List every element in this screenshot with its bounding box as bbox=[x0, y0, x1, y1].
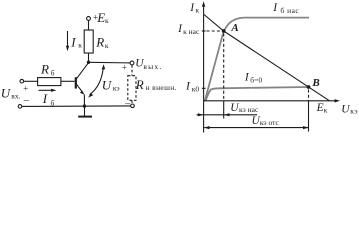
svg-text:к нас: к нас bbox=[183, 27, 200, 36]
svg-text:б: б bbox=[51, 99, 55, 108]
svg-text:б: б bbox=[51, 68, 55, 77]
svg-text:E: E bbox=[316, 102, 324, 114]
svg-text:R: R bbox=[135, 77, 144, 92]
svg-text:R: R bbox=[40, 62, 49, 77]
svg-text:к: к bbox=[105, 16, 109, 25]
svg-text:–: – bbox=[23, 95, 30, 106]
svg-text:–: – bbox=[124, 98, 131, 109]
svg-text:кэ отс: кэ отс bbox=[260, 118, 280, 127]
svg-text:к: к bbox=[324, 106, 328, 115]
svg-text:вых.: вых. bbox=[143, 62, 162, 71]
svg-text:U: U bbox=[1, 85, 12, 100]
svg-text:I: I bbox=[189, 2, 195, 14]
svg-text:н внешн.: н внешн. bbox=[146, 83, 177, 92]
svg-text:кэ: кэ bbox=[113, 84, 120, 93]
svg-text:к0: к0 bbox=[192, 84, 200, 93]
svg-text:вх.: вх. bbox=[11, 92, 20, 101]
svg-text:I: I bbox=[272, 2, 278, 14]
svg-text:кэ: кэ bbox=[350, 107, 358, 116]
svg-text:R: R bbox=[95, 35, 104, 50]
svg-text:к: к bbox=[195, 6, 199, 15]
svg-text:U: U bbox=[102, 78, 113, 93]
svg-text:I: I bbox=[70, 34, 76, 49]
svg-text:б=0: б=0 bbox=[250, 76, 262, 85]
svg-text:б нас: б нас bbox=[280, 6, 299, 15]
svg-text:U: U bbox=[230, 102, 239, 114]
svg-text:к: к bbox=[78, 41, 82, 50]
svg-text:E: E bbox=[96, 10, 105, 25]
svg-text:кэ нас: кэ нас bbox=[239, 105, 259, 114]
svg-text:U: U bbox=[341, 103, 350, 115]
svg-text:I: I bbox=[42, 91, 48, 106]
svg-text:+: + bbox=[122, 62, 127, 72]
svg-text:I: I bbox=[185, 81, 191, 93]
svg-text:+: + bbox=[23, 84, 28, 94]
svg-text:A: A bbox=[230, 22, 238, 34]
svg-text:B: B bbox=[311, 77, 319, 89]
svg-text:I: I bbox=[244, 72, 250, 84]
svg-text:к: к bbox=[105, 41, 109, 50]
